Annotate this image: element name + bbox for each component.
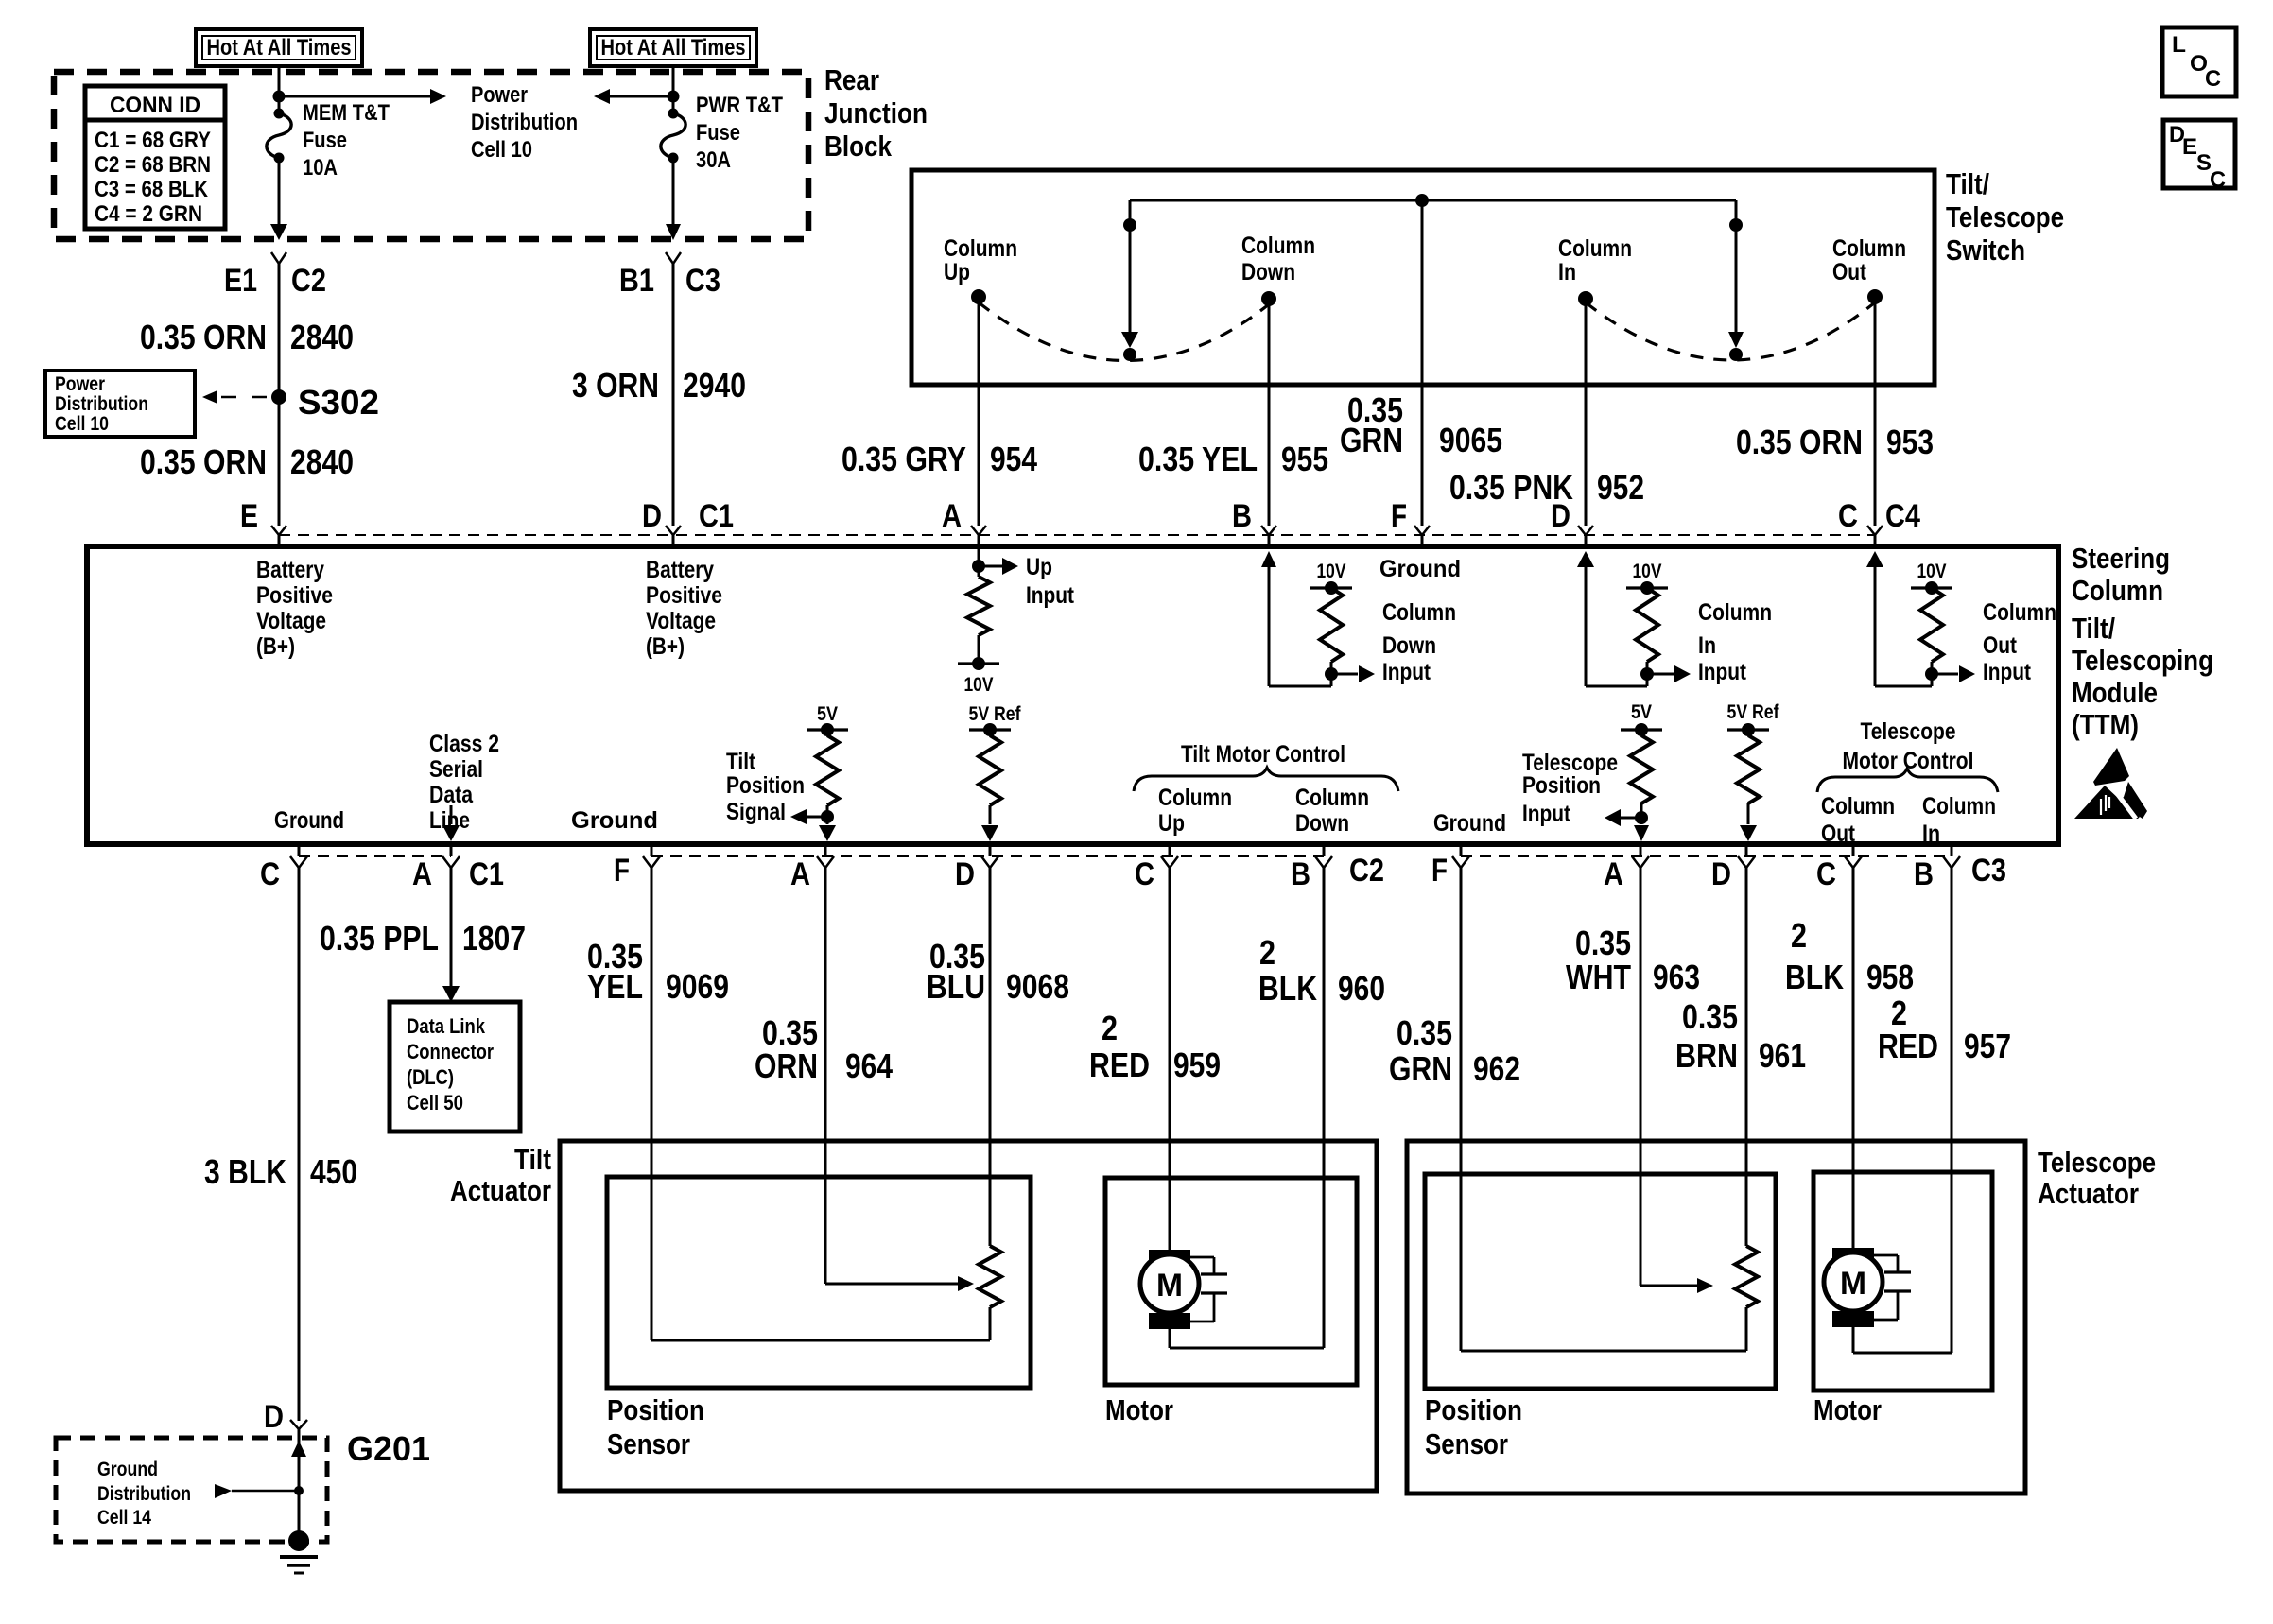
pin B / C3 (1914, 853, 2006, 892)
svg-text:Telescope: Telescope (1861, 718, 1956, 745)
arrow feed to Power Distribution (279, 89, 446, 104)
switch left pole wire (1121, 200, 1138, 361)
movable contact (tilt) dashed (979, 302, 1269, 361)
Up Input network: junction, arrow, resistor, 10V rail (958, 546, 1075, 696)
svg-text:Distribution: Distribution (471, 110, 578, 135)
svg-text:964: 964 (845, 1046, 893, 1085)
svg-text:Sensor: Sensor (1425, 1427, 1508, 1460)
svg-text:Positive: Positive (256, 582, 333, 609)
svg-text:C: C (260, 856, 280, 892)
motor M (telescope) (1824, 1248, 1883, 1327)
svg-text:E: E (240, 498, 258, 534)
svg-text:In: In (1698, 632, 1716, 659)
wire into G201 (291, 1429, 306, 1541)
svg-text:10V: 10V (1317, 561, 1346, 582)
Tilt Position Signal network: 5V resistor (726, 703, 848, 841)
svg-text:GRN: GRN (1389, 1049, 1452, 1088)
svg-text:2: 2 (1102, 1009, 1118, 1047)
svg-text:C2: C2 (1349, 853, 1384, 889)
svg-text:In: In (1922, 821, 1940, 847)
pin F (C3) (1431, 853, 1469, 889)
svg-text:Junction: Junction (824, 96, 928, 130)
wire 959 (1169, 868, 1171, 1250)
svg-text:In: In (1558, 259, 1576, 285)
svg-text:953: 953 (1886, 423, 1934, 461)
svg-text:(B+): (B+) (646, 633, 685, 660)
contact Column Down (1241, 233, 1315, 306)
wire 2840 (upper) (278, 264, 281, 526)
svg-text:Data: Data (429, 782, 474, 808)
svg-text:RED: RED (1089, 1045, 1150, 1084)
svg-text:ORN: ORN (755, 1046, 818, 1085)
svg-text:Rear: Rear (824, 63, 879, 96)
wire 954 (978, 297, 980, 526)
svg-text:C4 = 2 GRN: C4 = 2 GRN (95, 201, 202, 227)
svg-text:Position: Position (1425, 1393, 1522, 1426)
svg-text:M: M (1156, 1268, 1183, 1304)
contact Column In (1558, 235, 1632, 306)
Data Link Connector box (390, 1002, 520, 1132)
svg-text:2940: 2940 (683, 366, 746, 405)
svg-text:WHT: WHT (1566, 958, 1631, 996)
svg-text:450: 450 (310, 1152, 357, 1191)
svg-text:BLK: BLK (1258, 969, 1317, 1008)
label 2 RED 957 (1878, 993, 2011, 1065)
svg-text:D: D (955, 856, 975, 892)
row-1 pin stubs into TTM (279, 535, 1875, 549)
svg-text:10V: 10V (1917, 561, 1947, 582)
connector E1 / C2 (224, 252, 326, 299)
wire 963 (1640, 868, 1642, 1286)
svg-text:Switch: Switch (1946, 233, 2025, 267)
label 0.35 BLU 9068 (927, 937, 1069, 1006)
pin E (240, 498, 286, 535)
pin B (1232, 498, 1276, 535)
wiper arrow (telescope) (1640, 1278, 1713, 1293)
svg-text:Module: Module (2072, 676, 2158, 709)
svg-text:962: 962 (1473, 1049, 1520, 1088)
contact Column Out (1832, 235, 1906, 304)
Telescope Actuator box (1407, 1141, 2025, 1494)
wire 960 (1170, 868, 1324, 1348)
fuse PWR T&T 30A (661, 109, 685, 164)
wire 964 (824, 868, 827, 1284)
ESD sensitive device symbol (2074, 748, 2147, 819)
Rear Junction Block dashed outline (54, 72, 808, 239)
wire 1807 (442, 868, 460, 1002)
svg-text:F: F (1431, 853, 1448, 889)
wire 450 (298, 868, 301, 1421)
brace group Telescope Motor Control (1817, 718, 1998, 847)
svg-text:Signal: Signal (726, 799, 786, 825)
pin D (C3) (1711, 856, 1755, 892)
fuse MEM T&T 10A (267, 109, 291, 164)
label Class 2 Serial Data Line (429, 731, 499, 834)
Column Down Input network (10V resistor) (1261, 551, 1456, 686)
svg-text:Sensor: Sensor (607, 1427, 690, 1460)
svg-text:Tilt Motor Control: Tilt Motor Control (1181, 741, 1345, 768)
label 0.35 WHT 963 (1566, 924, 1700, 996)
ground distribution feed arrow (215, 1484, 304, 1498)
svg-text:Ground: Ground (1379, 556, 1461, 582)
label Battery Positive Voltage (B+) (pin E) (256, 557, 333, 660)
svg-text:BRN: BRN (1675, 1036, 1738, 1075)
svg-text:0.35 PPL: 0.35 PPL (320, 919, 439, 958)
svg-text:Up: Up (1026, 554, 1052, 580)
connector C2 row2 dashed (651, 855, 1324, 857)
svg-text:M: M (1840, 1266, 1866, 1302)
wire from Hot At All Times to MEM fuse (278, 66, 281, 112)
label Power Distribution Cell 10 (top) (471, 82, 578, 163)
svg-text:Column: Column (944, 235, 1017, 262)
wiper arrow (tilt) (825, 1276, 974, 1291)
svg-text:Column: Column (1295, 785, 1369, 811)
label Steering Column Tilt/Telescoping Module (TTM) (2072, 542, 2213, 741)
pin A (942, 498, 986, 535)
svg-text:3 ORN: 3 ORN (572, 366, 659, 405)
pin D (C2) (955, 856, 998, 892)
svg-text:5V: 5V (817, 703, 838, 725)
svg-text:BLK: BLK (1785, 958, 1844, 996)
svg-text:D: D (642, 498, 662, 534)
pin D (G201) (264, 1399, 307, 1435)
pin C (C1) (260, 856, 307, 892)
svg-text:Out: Out (1821, 821, 1856, 847)
svg-text:E: E (2182, 134, 2197, 160)
svg-text:Position: Position (726, 772, 805, 799)
svg-text:(B+): (B+) (256, 633, 295, 660)
svg-text:952: 952 (1597, 468, 1644, 507)
pin D / C1 (642, 498, 734, 535)
svg-text:Cell 10: Cell 10 (471, 137, 532, 163)
wire 9065 (1421, 200, 1424, 526)
Class 2 serial data output arrow (442, 805, 460, 841)
svg-text:Fuse: Fuse (303, 128, 347, 153)
svg-text:2840: 2840 (290, 318, 354, 356)
svg-text:C1: C1 (699, 498, 734, 534)
svg-text:Out: Out (1832, 259, 1867, 285)
label 0.35 GRN 9065 (1340, 390, 1502, 459)
svg-text:C3: C3 (1971, 853, 2006, 889)
pin F (C2) (614, 853, 660, 889)
label PWR T&T Fuse 30A (696, 93, 783, 173)
Column Out Input network (10V resistor) (1866, 551, 2056, 686)
svg-text:Distribution: Distribution (55, 393, 148, 415)
svg-text:0.35 ORN: 0.35 ORN (140, 318, 267, 356)
Position Sensor box (telescope) (1425, 1174, 1776, 1389)
svg-text:CONN ID: CONN ID (110, 93, 200, 118)
svg-text:Column: Column (1832, 235, 1906, 262)
svg-text:Up: Up (944, 259, 970, 285)
DESC reference box (2163, 120, 2235, 193)
svg-text:0.35: 0.35 (1575, 924, 1631, 962)
row-2 pin stubs from TTM (299, 842, 1952, 856)
motor M (tilt) (1140, 1250, 1199, 1329)
Tilt Actuator box (560, 1141, 1377, 1491)
svg-text:0.35 ORN: 0.35 ORN (1736, 423, 1863, 461)
svg-text:10V: 10V (1633, 561, 1662, 582)
pin C (C2) (1135, 856, 1178, 892)
svg-text:0.35: 0.35 (1682, 997, 1738, 1036)
svg-text:Hot At All Times: Hot At All Times (207, 35, 352, 60)
svg-text:S302: S302 (298, 383, 379, 422)
svg-text:A: A (412, 856, 432, 892)
wire MEM fuse to connector E1 (270, 158, 287, 240)
svg-text:Hot At All Times: Hot At All Times (601, 35, 746, 60)
5V Ref network (tilt) (969, 703, 1022, 841)
svg-text:2840: 2840 (290, 442, 354, 481)
svg-text:10V: 10V (964, 674, 994, 696)
svg-text:954: 954 (990, 440, 1037, 478)
pin A (C3) (1604, 856, 1649, 892)
svg-text:C: C (1838, 498, 1858, 534)
svg-text:30A: 30A (696, 147, 731, 173)
label MEM T&T Fuse 10A (303, 100, 390, 181)
svg-text:C: C (1816, 856, 1836, 892)
switch common wire (1130, 199, 1736, 202)
svg-text:Ground: Ground (1433, 810, 1506, 837)
svg-text:YEL: YEL (587, 967, 643, 1006)
svg-text:955: 955 (1281, 440, 1328, 478)
svg-text:Cell 14: Cell 14 (97, 1507, 151, 1529)
svg-text:Column: Column (1382, 599, 1456, 626)
pin D (1551, 498, 1593, 535)
CONN ID table (85, 86, 225, 229)
switch right pole wire (1728, 200, 1744, 361)
svg-text:0.35 GRY: 0.35 GRY (842, 440, 966, 478)
brace group Tilt Motor Control (1134, 741, 1398, 837)
connector C3 row2 dashed (1461, 855, 1952, 857)
svg-text:Input: Input (1382, 659, 1431, 685)
label box Hot At All Times (right) (590, 29, 756, 66)
label 0.35 ORN 964 (755, 1013, 893, 1085)
svg-text:Steering: Steering (2072, 542, 2170, 575)
wire from Hot At All Times to PWR fuse (672, 66, 675, 113)
movable contact (telescope) dashed (1586, 302, 1875, 360)
svg-text:Actuator: Actuator (2038, 1177, 2139, 1210)
svg-text:MEM T&T: MEM T&T (303, 100, 390, 126)
LOC reference box (2162, 27, 2236, 96)
5V Ref network (telescope) (1727, 701, 1780, 841)
svg-text:5V: 5V (1631, 701, 1652, 723)
pin C (C3) (1816, 856, 1862, 892)
svg-text:Tilt: Tilt (726, 749, 756, 775)
wire 962 (1460, 868, 1463, 1351)
svg-text:Serial: Serial (429, 756, 483, 783)
svg-text:Ground: Ground (97, 1459, 158, 1480)
svg-text:B1: B1 (619, 263, 654, 299)
svg-text:(TTM): (TTM) (2072, 708, 2139, 741)
svg-text:Tilt/: Tilt/ (1946, 167, 1989, 200)
svg-text:(DLC): (DLC) (407, 1065, 454, 1089)
svg-text:0.35 ORN: 0.35 ORN (140, 442, 267, 481)
svg-text:C2: C2 (291, 263, 326, 299)
label Rear Junction Block (824, 63, 928, 163)
svg-text:Position: Position (607, 1393, 704, 1426)
svg-text:Down: Down (1382, 632, 1436, 659)
svg-text:B: B (1291, 856, 1310, 892)
svg-text:Cell 50: Cell 50 (407, 1091, 463, 1114)
label 0.35 GRN 962 (1389, 1013, 1520, 1088)
junction switch common / wire 9065 (1415, 194, 1429, 207)
wire 9068 (989, 868, 992, 1246)
svg-text:F: F (614, 853, 630, 889)
svg-text:C4: C4 (1885, 498, 1920, 534)
svg-text:Telescoping: Telescoping (2072, 644, 2213, 677)
svg-text:A: A (942, 498, 962, 534)
svg-text:Telescope: Telescope (2038, 1146, 2156, 1179)
svg-text:Column: Column (2072, 574, 2163, 607)
svg-text:Input: Input (1522, 801, 1571, 827)
svg-text:963: 963 (1653, 958, 1700, 996)
svg-text:Column: Column (1983, 599, 2056, 626)
Ground Distribution dashed box (56, 1438, 327, 1542)
svg-text:Power: Power (471, 82, 528, 108)
svg-text:Ground: Ground (274, 807, 344, 834)
svg-text:D: D (1711, 856, 1731, 892)
svg-text:1807: 1807 (462, 919, 526, 958)
svg-text:958: 958 (1866, 958, 1914, 996)
svg-text:A: A (790, 856, 810, 892)
svg-text:C: C (1135, 856, 1154, 892)
wire PWR fuse to connector B1 (666, 158, 681, 240)
splice S302 (271, 383, 379, 422)
svg-text:G201: G201 (347, 1429, 430, 1468)
wire 953 (1874, 297, 1877, 526)
svg-text:2: 2 (1791, 916, 1807, 955)
wire 961 (1745, 868, 1748, 1246)
arrow feed to Power Distribution (left) (594, 89, 673, 104)
svg-text:Telescope: Telescope (1946, 200, 2064, 233)
label Position Sensor (telescope) (1425, 1393, 1522, 1460)
svg-text:C1: C1 (469, 856, 504, 892)
svg-text:Column: Column (1158, 785, 1232, 811)
label 2 RED 959 (1089, 1009, 1221, 1084)
svg-text:D: D (264, 1399, 284, 1435)
svg-text:Distribution: Distribution (97, 1483, 191, 1505)
svg-text:Voltage: Voltage (646, 608, 716, 634)
position sensor potentiometer (telescope) (1461, 1246, 1758, 1351)
svg-text:Position: Position (1522, 772, 1601, 799)
wire 957 (1853, 868, 1952, 1353)
svg-text:2: 2 (1259, 933, 1275, 972)
svg-text:Actuator: Actuator (450, 1174, 551, 1207)
Tilt/Telescope Switch box (911, 170, 1935, 385)
svg-text:Fuse: Fuse (696, 120, 740, 146)
Motor box (telescope) (1813, 1172, 1992, 1391)
svg-text:0.35 YEL: 0.35 YEL (1138, 440, 1258, 478)
junction on PWR feed (668, 91, 680, 103)
Position Sensor box (tilt) (607, 1177, 1031, 1388)
pin B / C2 (1291, 853, 1384, 892)
pin A / C1 (412, 856, 504, 892)
svg-text:BLU: BLU (927, 967, 985, 1006)
svg-text:C3: C3 (685, 263, 720, 299)
pin A (C2) (790, 856, 834, 892)
wire 2940 (672, 264, 675, 526)
svg-text:Up: Up (1158, 810, 1185, 837)
svg-text:B: B (1914, 856, 1934, 892)
svg-text:Block: Block (824, 130, 893, 163)
pin F (1391, 498, 1430, 535)
svg-text:5V Ref: 5V Ref (969, 703, 1022, 725)
svg-text:Battery: Battery (256, 557, 324, 583)
ground symbol G201 (280, 1530, 318, 1573)
svg-text:Motor: Motor (1813, 1393, 1882, 1426)
noise capacitor (telescope) (1874, 1255, 1911, 1320)
svg-text:PWR T&T: PWR T&T (696, 93, 783, 118)
svg-text:C2 = 68 BRN: C2 = 68 BRN (95, 152, 211, 178)
junction on MEM feed (273, 91, 286, 103)
svg-text:Positive: Positive (646, 582, 722, 609)
svg-text:C: C (2205, 66, 2221, 92)
svg-text:Down: Down (1241, 259, 1295, 285)
svg-text:F: F (1391, 498, 1407, 534)
svg-text:Ground: Ground (571, 807, 658, 834)
svg-text:Power: Power (55, 373, 105, 395)
svg-text:L: L (2172, 32, 2186, 58)
svg-text:Battery: Battery (646, 557, 714, 583)
svg-text:10A: 10A (303, 155, 338, 181)
label Position Sensor (tilt) (607, 1393, 704, 1460)
svg-text:A: A (1604, 856, 1623, 892)
noise capacitor (tilt) (1190, 1257, 1227, 1322)
svg-text:E1: E1 (224, 263, 257, 299)
label 0.35 YEL 9069 (587, 937, 729, 1006)
svg-text:961: 961 (1759, 1036, 1806, 1075)
svg-text:Cell 10: Cell 10 (55, 413, 109, 435)
label box Hot At All Times (left) (196, 29, 362, 66)
connector row C4: dashed line (279, 534, 1875, 536)
position sensor potentiometer (tilt) (651, 1246, 1001, 1340)
svg-text:9065: 9065 (1439, 421, 1502, 459)
svg-text:957: 957 (1964, 1027, 2011, 1065)
Motor box (tilt) (1105, 1178, 1357, 1385)
svg-text:Class 2: Class 2 (429, 731, 499, 757)
svg-text:C3 = 68 BLK: C3 = 68 BLK (95, 177, 209, 202)
svg-text:Column: Column (1922, 793, 1996, 820)
svg-text:Data Link: Data Link (407, 1014, 486, 1038)
label 2 BLK 958 (1785, 916, 1914, 996)
connector C1 row2 dashed (299, 855, 451, 857)
svg-text:3 BLK: 3 BLK (204, 1152, 286, 1191)
contact Column Up (944, 235, 1017, 304)
svg-text:Out: Out (1983, 632, 2018, 659)
svg-text:RED: RED (1878, 1027, 1938, 1065)
svg-text:Tilt: Tilt (514, 1143, 551, 1176)
svg-text:0.35: 0.35 (1397, 1013, 1452, 1052)
svg-text:Input: Input (1698, 659, 1747, 685)
svg-text:C1 = 68 GRY: C1 = 68 GRY (95, 128, 211, 153)
wire 9069 (651, 868, 653, 1340)
pin C / C4 (1838, 498, 1920, 535)
box Power Distribution Cell 10 (left) (45, 371, 195, 437)
wire 952 (1585, 299, 1588, 526)
svg-text:Down: Down (1295, 810, 1349, 837)
label 0.35 BRN 961 (1675, 997, 1806, 1075)
wire 955 (1268, 299, 1271, 526)
svg-text:959: 959 (1173, 1045, 1221, 1084)
svg-text:C: C (2210, 167, 2226, 193)
svg-text:9068: 9068 (1006, 967, 1069, 1006)
Column In Input network (10V resistor) (1577, 551, 1772, 686)
svg-text:Connector: Connector (407, 1040, 494, 1063)
svg-text:Tilt/: Tilt/ (2072, 612, 2115, 645)
label Tilt Actuator (450, 1143, 551, 1207)
svg-text:Motor: Motor (1105, 1393, 1173, 1426)
svg-text:Input: Input (1983, 659, 2032, 685)
svg-text:5V Ref: 5V Ref (1727, 701, 1780, 723)
